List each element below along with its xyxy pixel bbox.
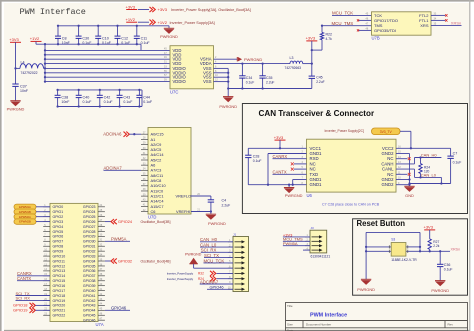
svg-text:4.7k: 4.7k (326, 37, 333, 41)
svg-text:R32: R32 (198, 272, 204, 276)
svg-text:GND1: GND1 (310, 182, 323, 187)
svg-text:CANTX: CANTX (273, 169, 287, 174)
svg-text:C43: C43 (123, 96, 130, 100)
sheet title text (20, 7, 86, 17)
svg-text:GPIO35: GPIO35 (83, 264, 96, 268)
section heading CAN (259, 109, 375, 118)
svg-text:GPIO41: GPIO41 (83, 294, 96, 298)
svg-text:C45: C45 (316, 76, 322, 80)
capacitor C12 (115, 26, 131, 45)
svg-text:GPIO11: GPIO11 (53, 259, 65, 263)
svg-text:GPIO6: GPIO6 (53, 235, 64, 239)
svg-text:C37: C37 (20, 84, 27, 88)
svg-text:2.2uF: 2.2uF (316, 80, 324, 84)
title block (286, 303, 468, 331)
svg-text:C30: C30 (82, 36, 89, 40)
wire VCC2 (396, 147, 451, 149)
wire VCC1 (248, 147, 306, 149)
section box Reset Button (353, 219, 468, 295)
switch S3 (389, 238, 417, 262)
ground PWRGND bottom-left (7, 101, 25, 112)
net label MCU_TCK (332, 11, 372, 16)
svg-text:PWRGND: PWRGND (431, 288, 449, 293)
svg-text:PWRGND: PWRGND (219, 104, 237, 109)
wire GND1 pin7 (293, 180, 307, 185)
svg-text:GPIO26: GPIO26 (83, 220, 96, 224)
net label MCU_TMS (321, 21, 372, 27)
svg-text:GPIO13: GPIO13 (53, 269, 66, 273)
svg-text:2.2uF: 2.2uF (222, 203, 231, 207)
wire TDO stub (357, 19, 372, 21)
svg-text:+3V3: +3V3 (126, 4, 136, 9)
power port +3V3 reset (424, 225, 436, 239)
svg-text:GND: GND (405, 193, 414, 198)
svg-text:GPIO22: GPIO22 (53, 314, 66, 318)
svg-text:C4: C4 (222, 198, 227, 202)
ground PWRGND U6 (284, 185, 303, 199)
svg-text:GPIO19: GPIO19 (13, 308, 28, 313)
svg-text:ADCINA7: ADCINA7 (104, 166, 123, 171)
net label ADCINA7 j1 (200, 279, 233, 284)
svg-text:0.1uF: 0.1uF (104, 100, 113, 104)
wire j3 pin4 (303, 249, 310, 251)
svg-text:C12: C12 (121, 36, 128, 40)
wire bottom cap gnd rail (56, 90, 142, 108)
svg-text:2.2uF: 2.2uF (266, 81, 274, 85)
wire +1V2 rail (36, 43, 141, 45)
svg-text:VDDIO: VDDIO (173, 79, 187, 84)
wire gnd rail top (57, 25, 169, 29)
svg-text:GPIO15: GPIO15 (53, 279, 66, 283)
ground PWRGND reset right (431, 281, 449, 294)
svg-text:0.1uF: 0.1uF (141, 41, 150, 45)
ic U7D adc (143, 128, 201, 220)
svg-text:R22: R22 (326, 33, 332, 37)
power port +3V3 top (126, 4, 150, 9)
wire bus U7C supply rows (45, 44, 170, 81)
svg-text:PWRGND: PWRGND (357, 287, 375, 292)
ground PWRGND reset left (357, 279, 375, 292)
svg-text:GPIO7: GPIO7 (53, 240, 64, 244)
capacitor C28 (245, 148, 261, 184)
svg-text:R27: R27 (433, 240, 439, 244)
port tag EPWM2B (14, 219, 50, 224)
section box CAN Transceiver (242, 104, 467, 214)
svg-text:U7D: U7D (148, 214, 156, 219)
svg-text:GPIO31: GPIO31 (83, 245, 96, 249)
svg-text:1188E-1K2-V-TR: 1188E-1K2-V-TR (391, 258, 417, 262)
svg-text:GPIO35/TDI: GPIO35/TDI (374, 28, 396, 33)
svg-text:0.1uF: 0.1uF (83, 100, 92, 104)
svg-text:EPWM1A: EPWM1A (19, 205, 31, 209)
capacitor C4 (208, 198, 230, 211)
svg-text:GPIO21: GPIO21 (53, 309, 66, 313)
wire NC pin14 (396, 157, 411, 160)
resistor R27 (428, 239, 440, 253)
power port +1V2 top (126, 17, 150, 22)
svg-text:J3: J3 (311, 226, 315, 230)
port tag EPWM1A (14, 204, 50, 209)
section heading Reset (357, 219, 406, 228)
svg-text:CANRX: CANRX (273, 154, 288, 159)
ground PWRGND VSHA (237, 57, 262, 62)
svg-text:PWRGND: PWRGND (185, 253, 202, 257)
svg-text:GPIO44: GPIO44 (83, 309, 96, 313)
inductor L4 (14, 61, 45, 75)
svg-text:GPIO32: GPIO32 (83, 249, 96, 253)
svg-text:+3V3: +3V3 (9, 37, 19, 42)
svg-text:GPIO18: GPIO18 (53, 294, 66, 298)
svg-text:XRSn: XRSn (451, 21, 461, 26)
power port +3V3 CAN (274, 135, 286, 148)
svg-text:+3V3: +3V3 (158, 7, 168, 12)
svg-text:10nF: 10nF (61, 100, 69, 104)
wire analog gnd rail (228, 87, 312, 89)
wire VREFLO (191, 196, 211, 200)
ic U7A gpio (44, 203, 104, 327)
svg-text:GPIO43: GPIO43 (83, 304, 96, 308)
wire FTL2 nc (431, 14, 448, 16)
svg-text:Oscillator_Boot[3B]: Oscillator_Boot[3B] (141, 220, 171, 224)
svg-text:U7C: U7C (170, 89, 178, 94)
wire NC pin4 (291, 162, 307, 165)
svg-text:742792022: 742792022 (21, 71, 38, 75)
svg-text:EPWM1B: EPWM1B (19, 210, 31, 214)
svg-text:GPIO14: GPIO14 (53, 274, 66, 278)
svg-text:GPIO28: GPIO28 (83, 230, 96, 234)
wire NC pin5 (291, 168, 307, 171)
svg-text:GPIO46: GPIO46 (83, 318, 96, 322)
svg-text:GPIO36: GPIO36 (83, 269, 96, 273)
svg-text:GPIO39: GPIO39 (83, 284, 96, 288)
svg-text:Inverter_Power Supply[3A], Osc: Inverter_Power Supply[3A], Oscillator_Bo… (171, 8, 251, 12)
svg-text:CAN Transceiver & Connector: CAN Transceiver & Connector (259, 109, 375, 118)
net label +3V3 j3 (283, 232, 310, 237)
svg-text:U6: U6 (307, 193, 313, 198)
svg-text:GPIO4: GPIO4 (53, 225, 64, 229)
svg-text:GPIO9: GPIO9 (53, 249, 64, 253)
svg-text:C7: C7 (453, 151, 458, 155)
port tag EPWM2A (14, 214, 50, 219)
svg-text:Inverter_Power Supply[2C]: Inverter_Power Supply[2C] (325, 129, 364, 133)
power port +3V3 left (9, 37, 21, 68)
off-sheet R24 j1 (167, 276, 233, 281)
svg-text:GPIO30: GPIO30 (83, 240, 96, 244)
svg-text:61300411121: 61300411121 (311, 254, 331, 258)
ground PWRGND top rail (160, 28, 178, 39)
svg-text:Oscillator_Boot[4B]: Oscillator_Boot[4B] (141, 259, 171, 263)
wire U7D pin stubs (141, 134, 148, 211)
svg-text:GPIO29: GPIO29 (83, 235, 96, 239)
wire reset top rail (365, 232, 421, 279)
net label PWM5A u7a (105, 237, 130, 242)
svg-text:Title: Title (287, 304, 293, 308)
connector J3 header (305, 226, 330, 258)
sheet ref Inverter_Power Supply 2C (325, 129, 364, 133)
net label CAN_H0 can (396, 153, 441, 164)
net label GPIO46 j1 (207, 285, 233, 290)
svg-text:GPIO23: GPIO23 (83, 205, 96, 209)
svg-text:PWM Interface: PWM Interface (310, 312, 347, 318)
off-sheet ADCINA6 (103, 131, 141, 136)
wire VREFHI (191, 210, 212, 214)
off-sheet GPIO19 (13, 308, 50, 313)
svg-text:VSS: VSS (203, 79, 212, 84)
svg-text:PWRGND: PWRGND (285, 193, 303, 198)
net label ADCINA7 u7d (104, 166, 142, 171)
svg-text:U7A: U7A (96, 322, 104, 327)
svg-text:GPIO20: GPIO20 (53, 304, 66, 308)
capacitor C7 (447, 148, 461, 183)
svg-text:GPIO17: GPIO17 (53, 289, 66, 293)
net label SCI_RX u7a (16, 296, 51, 301)
svg-text:ADCINA6: ADCINA6 (103, 131, 122, 136)
svg-text:GPIO19: GPIO19 (53, 299, 66, 303)
svg-text:+1V2: +1V2 (158, 20, 168, 25)
svg-text:GPIO2: GPIO2 (53, 215, 64, 219)
off-sheet GPIO32 Oscillator_Boot (105, 258, 171, 263)
svg-text:0.1uF: 0.1uF (444, 268, 453, 272)
svg-text:EPWM2A: EPWM2A (19, 215, 31, 219)
svg-text:GPIO17/TDO: GPIO17/TDO (374, 18, 398, 23)
svg-text:PWRGND: PWRGND (160, 34, 178, 39)
svg-text:GPIO1: GPIO1 (53, 210, 64, 214)
svg-text:PWRGND: PWRGND (244, 57, 262, 62)
wire TDI stub (357, 29, 372, 31)
svg-text:J1: J1 (233, 232, 237, 236)
resistor R24 (419, 158, 430, 179)
net label CAN_L0 j1 (200, 242, 233, 247)
svg-text:Rev: Rev (448, 323, 454, 327)
svg-text:Document Number: Document Number (306, 323, 331, 327)
net label CANRX (273, 154, 307, 159)
svg-text:PWRGND: PWRGND (7, 106, 25, 111)
svg-text:PWM Interface: PWM Interface (20, 7, 86, 17)
svg-text:CAN_L0: CAN_L0 (200, 242, 217, 247)
svg-text:GPIO45: GPIO45 (83, 314, 96, 318)
ground PWRGND below U7C (219, 97, 237, 109)
svg-text:C8: C8 (62, 36, 67, 40)
wire GND1 pin2 (268, 154, 307, 185)
svg-text:S3: S3 (391, 238, 395, 242)
svg-text:C38: C38 (61, 96, 68, 100)
net label SCI_TX u7a (16, 291, 51, 296)
net label SCI_RX j1 (201, 248, 233, 253)
svg-text:C36: C36 (444, 263, 451, 267)
ic U6 CAN transceiver (302, 139, 402, 198)
svg-text:0.1uF: 0.1uF (253, 159, 262, 163)
ground PWRGND up j1 (189, 258, 233, 268)
port tag EPWM1B (14, 209, 50, 214)
net label CAN_L0 can (396, 169, 441, 178)
wire 3V3_TV to VCC2 (400, 131, 411, 148)
net label CAN_H0 j1 (200, 237, 233, 242)
capacitor C37 (12, 68, 28, 100)
wire GND2 column (396, 154, 411, 187)
connector J1 header (228, 232, 249, 291)
capacitor C43 (117, 90, 133, 107)
note C7 C28 placement (322, 203, 380, 207)
svg-text:+3V3: +3V3 (274, 135, 284, 140)
capacitor C42 (97, 90, 113, 107)
svg-text:C40: C40 (83, 96, 90, 100)
off-sheet connector +3V3 Inverter_Power Supply (150, 7, 251, 12)
tag 3V3_TV (372, 128, 401, 135)
ground GND CAN (404, 186, 414, 198)
svg-text:C44: C44 (143, 96, 150, 100)
svg-text:GPIO33: GPIO33 (83, 254, 96, 258)
svg-text:VREFLO: VREFLO (176, 193, 192, 198)
net label CANRX u7a (17, 271, 50, 276)
svg-text:GPIO42: GPIO42 (83, 299, 96, 303)
svg-text:XRS: XRS (420, 23, 429, 28)
svg-text:GPIO24: GPIO24 (118, 219, 133, 224)
svg-text:GPIO27: GPIO27 (83, 225, 96, 229)
off-sheet R32 j1 (167, 271, 233, 276)
wire VDDA feed vertical (311, 50, 313, 76)
wire switch left pins (366, 247, 391, 251)
svg-text:U7B: U7B (372, 36, 380, 41)
wire VDDA rail (214, 62, 291, 64)
svg-text:Size: Size (287, 323, 293, 327)
svg-text:C28: C28 (253, 155, 260, 159)
svg-text:Inverter_Power Supply[3A]: Inverter_Power Supply[3A] (170, 21, 215, 25)
capacitor C38 (55, 90, 70, 107)
net label XRSn top (431, 21, 462, 26)
ic U7B jtag (366, 12, 437, 41)
svg-text:PWRGND: PWRGND (208, 221, 226, 226)
net label PWM5A j3 (283, 241, 310, 246)
net label CANTX (273, 169, 307, 174)
svg-text:C6: C6 (151, 209, 156, 214)
svg-text:GPIO24: GPIO24 (83, 210, 96, 214)
net label GPIO46 u7a (105, 306, 130, 311)
wire NC pin11 (396, 173, 411, 176)
net label MCU_TCK j1 (204, 258, 234, 263)
svg-text:CAN_H0: CAN_H0 (421, 153, 438, 158)
capacitor C34 (239, 64, 254, 89)
wire vertical bus feeder (44, 44, 46, 83)
net label MCU_TMS j3 (283, 237, 310, 242)
svg-text:+3V3: +3V3 (424, 225, 434, 230)
wire VSHA to pwrgnd (214, 58, 238, 60)
wire can gnd rail (410, 177, 451, 184)
svg-text:GPIO0: GPIO0 (53, 205, 64, 209)
svg-text:GPIO34: GPIO34 (83, 259, 96, 263)
inductor L3 (285, 56, 312, 70)
svg-text:+1V2: +1V2 (30, 36, 40, 41)
capacitor C11 (134, 26, 150, 45)
wire bottom cap upper rail (56, 89, 142, 91)
svg-text:+1V2: +1V2 (126, 17, 136, 22)
capacitor C45 (309, 76, 325, 89)
svg-text:742792663: 742792663 (285, 66, 302, 70)
off-sheet connector +1V2 Inverter_Power Supply (150, 20, 215, 25)
svg-text:GPIO16: GPIO16 (53, 284, 66, 288)
svg-text:EPWM2B: EPWM2B (19, 220, 31, 224)
wire U7A left stubs (43, 207, 50, 315)
svg-text:Reset Button: Reset Button (357, 219, 406, 228)
net label CANTX u7a (17, 276, 50, 281)
svg-text:GPIO5: GPIO5 (53, 230, 64, 234)
svg-text:GPIO10: GPIO10 (53, 254, 66, 258)
ic U7C power pins (164, 46, 218, 95)
capacitor C30 (76, 26, 92, 45)
svg-text:GPIO38: GPIO38 (83, 279, 96, 283)
svg-text:3V3_TV: 3V3_TV (380, 130, 393, 134)
svg-text:+3V3: +3V3 (306, 36, 316, 41)
svg-text:GPIO25: GPIO25 (83, 215, 96, 219)
svg-text:VREFHI: VREFHI (176, 209, 190, 214)
wire FTL1 nc (431, 19, 448, 21)
svg-text:GPIO32: GPIO32 (118, 258, 132, 263)
ground PWRGND vref (206, 214, 226, 226)
capacitor C8 (55, 26, 70, 45)
off-sheet GPIO24 Oscillator_Boot (105, 219, 171, 224)
capacitor C35 (259, 64, 274, 89)
svg-text:Inverter_PowerSupply: Inverter_PowerSupply (167, 277, 194, 281)
svg-text:GPIO40: GPIO40 (83, 289, 96, 293)
svg-text:L4: L4 (21, 61, 25, 65)
svg-text:GPIO37: GPIO37 (83, 274, 96, 278)
wire GND1 pin8 rail (248, 184, 306, 186)
net label XRSn reset (420, 248, 460, 253)
svg-text:Inverter_PowerSupply: Inverter_PowerSupply (167, 272, 194, 276)
svg-text:0.1uF: 0.1uF (143, 100, 152, 104)
power port +1V2 left (30, 36, 42, 44)
net label SCI_TX j1 (185, 253, 233, 258)
svg-text:CAN_L0: CAN_L0 (421, 173, 437, 178)
svg-text:L3: L3 (290, 56, 294, 60)
capacitor C44 (136, 90, 152, 107)
svg-text:XRSn: XRSn (451, 248, 461, 252)
svg-text:10nF: 10nF (20, 89, 28, 93)
svg-text:C7 C28 place close to CAN on P: C7 C28 place close to CAN on PCB (322, 203, 380, 207)
resistor R22 (311, 26, 332, 52)
capacitor C40 (76, 90, 92, 107)
wire switch right pins (406, 247, 420, 251)
svg-text:GPIO12: GPIO12 (53, 264, 66, 268)
svg-text:2.2k: 2.2k (433, 244, 439, 248)
svg-text:GPIO3: GPIO3 (53, 220, 64, 224)
power port +3V3 mid (306, 36, 318, 50)
svg-text:C42: C42 (104, 96, 111, 100)
svg-text:0.1uF: 0.1uF (453, 161, 462, 165)
off-sheet GPIO18 (13, 303, 50, 308)
capacitor C36 (437, 251, 452, 280)
svg-text:0.1uF: 0.1uF (123, 100, 132, 104)
svg-text:C10: C10 (102, 36, 109, 40)
svg-text:GND2: GND2 (382, 182, 395, 187)
wire VSS gnd column (214, 68, 230, 96)
svg-text:GPIO8: GPIO8 (53, 245, 64, 249)
wire U7A right stubs (98, 207, 105, 320)
capacitor C10 (95, 26, 111, 45)
svg-text:0.1uF: 0.1uF (246, 81, 254, 85)
svg-text:C11: C11 (141, 36, 148, 40)
